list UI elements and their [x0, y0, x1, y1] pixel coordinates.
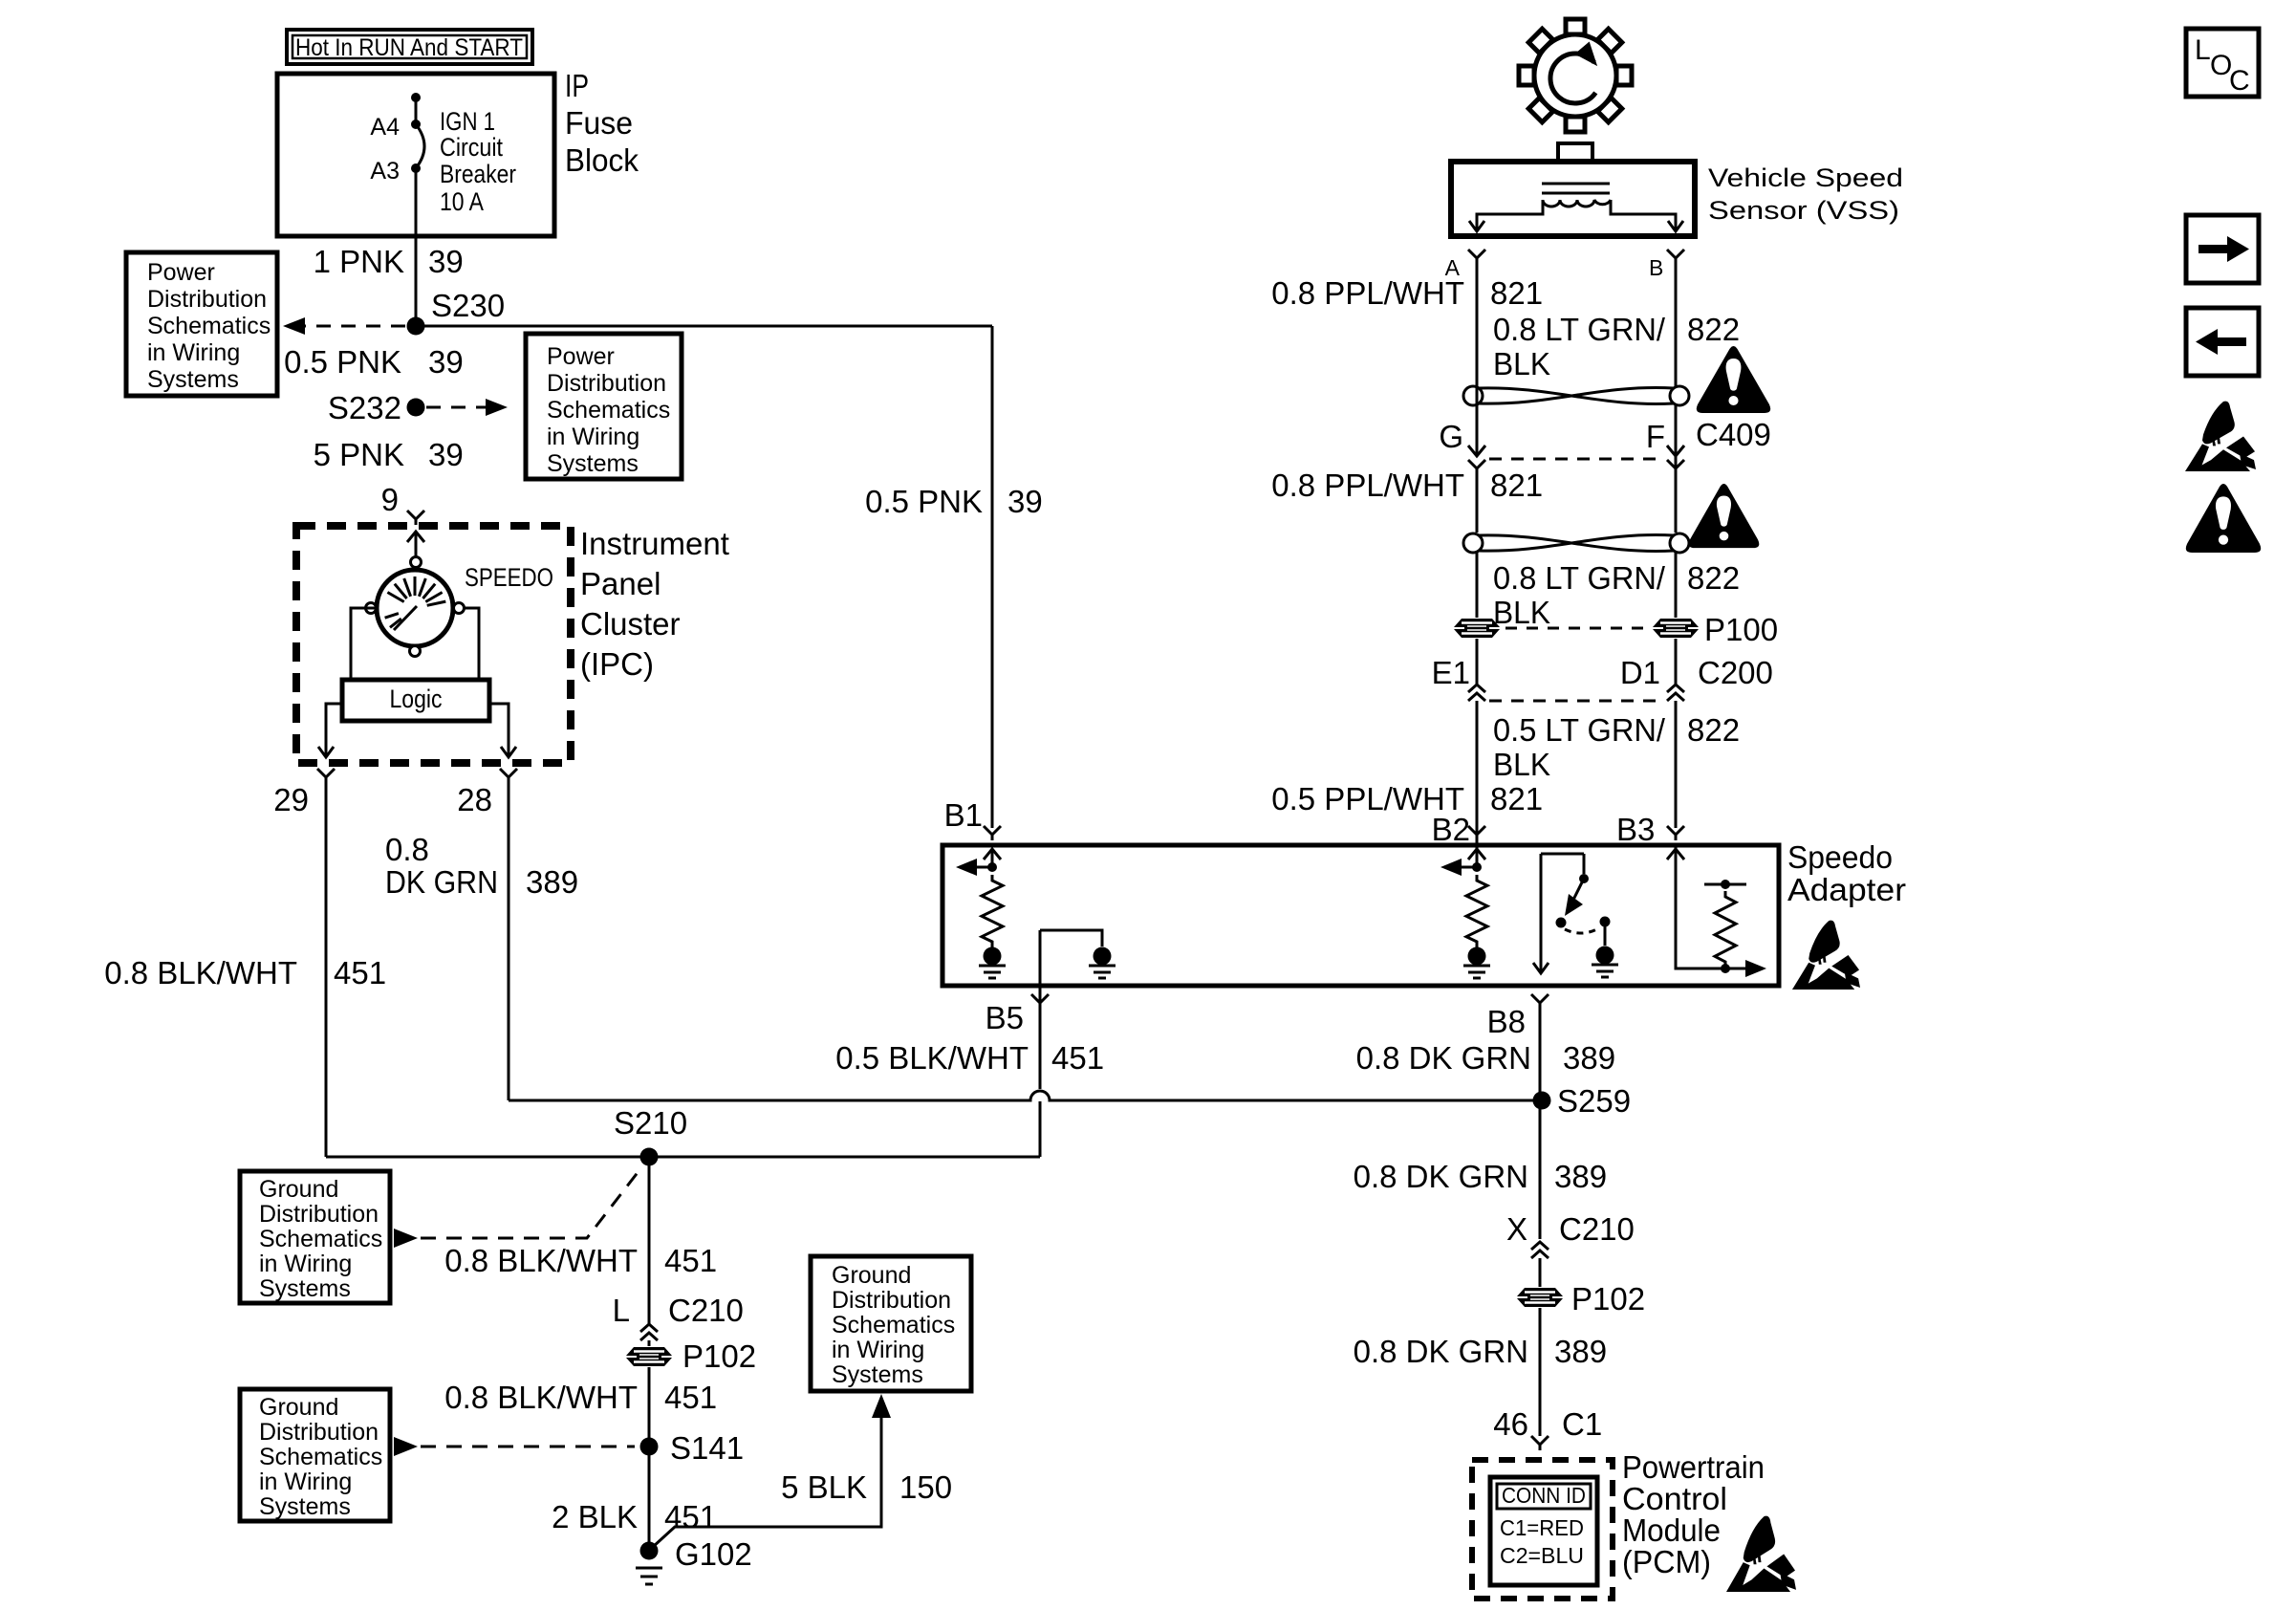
svg-text:L: L [613, 1293, 630, 1328]
svg-text:B1: B1 [944, 797, 983, 833]
svg-text:0.5 BLK/WHT: 0.5 BLK/WHT [835, 1040, 1029, 1076]
svg-text:Ground: Ground [259, 1176, 338, 1203]
svg-text:Systems: Systems [259, 1275, 351, 1302]
svg-text:Breaker: Breaker [440, 160, 516, 188]
svg-text:P102: P102 [1571, 1281, 1645, 1316]
svg-text:1 PNK: 1 PNK [314, 244, 404, 279]
svg-text:0.8 DK GRN: 0.8 DK GRN [1354, 1159, 1528, 1194]
svg-text:B2: B2 [1432, 812, 1470, 847]
svg-text:BLK: BLK [1493, 747, 1550, 782]
svg-text:B3: B3 [1616, 812, 1655, 847]
svg-text:C2=BLU: C2=BLU [1500, 1543, 1584, 1568]
svg-text:39: 39 [428, 437, 464, 472]
svg-text:Panel: Panel [580, 566, 661, 601]
svg-text:G102: G102 [675, 1536, 752, 1572]
svg-text:Distribution: Distribution [547, 370, 666, 397]
svg-text:Ground: Ground [259, 1394, 338, 1421]
svg-text:in Wiring: in Wiring [259, 1469, 352, 1495]
svg-text:Systems: Systems [259, 1493, 351, 1520]
svg-text:C210: C210 [668, 1293, 744, 1328]
svg-text:SPEEDO: SPEEDO [465, 563, 553, 592]
svg-text:B: B [1649, 255, 1663, 280]
svg-text:CONN ID: CONN ID [1502, 1483, 1586, 1508]
svg-text:0.8 LT GRN/: 0.8 LT GRN/ [1493, 312, 1666, 347]
svg-text:0.8 DK GRN: 0.8 DK GRN [1356, 1040, 1531, 1076]
svg-text:451: 451 [664, 1380, 717, 1415]
svg-text:Systems: Systems [147, 366, 239, 393]
svg-text:Sensor (VSS): Sensor (VSS) [1708, 196, 1899, 225]
svg-text:Module: Module [1622, 1512, 1721, 1548]
svg-text:Power: Power [147, 259, 215, 286]
svg-text:46: 46 [1493, 1406, 1528, 1442]
svg-text:Systems: Systems [832, 1361, 923, 1388]
svg-text:389: 389 [1554, 1159, 1607, 1194]
svg-text:822: 822 [1687, 312, 1740, 347]
svg-text:9: 9 [381, 482, 399, 517]
svg-text:Systems: Systems [547, 450, 639, 477]
svg-text:Adapter: Adapter [1787, 872, 1906, 907]
svg-text:in Wiring: in Wiring [259, 1251, 352, 1277]
svg-text:Instrument: Instrument [580, 526, 729, 561]
svg-text:G: G [1439, 419, 1463, 454]
svg-text:F: F [1646, 419, 1665, 454]
svg-text:451: 451 [664, 1243, 717, 1278]
svg-text:E1: E1 [1432, 655, 1470, 690]
svg-text:IP: IP [565, 68, 589, 103]
svg-text:0.8 BLK/WHT: 0.8 BLK/WHT [444, 1243, 638, 1278]
svg-text:D1: D1 [1620, 655, 1660, 690]
svg-text:28: 28 [457, 782, 492, 817]
svg-text:S210: S210 [614, 1105, 687, 1141]
svg-text:P100: P100 [1704, 612, 1778, 647]
svg-text:in Wiring: in Wiring [547, 424, 639, 450]
svg-text:822: 822 [1687, 560, 1740, 596]
svg-text:0.8 BLK/WHT: 0.8 BLK/WHT [104, 955, 297, 990]
svg-text:A3: A3 [370, 158, 400, 185]
svg-text:S230: S230 [431, 288, 505, 323]
svg-text:0.8: 0.8 [385, 832, 429, 867]
svg-text:Control: Control [1622, 1481, 1727, 1516]
svg-text:Hot In RUN And START: Hot In RUN And START [295, 34, 523, 61]
svg-text:S259: S259 [1557, 1083, 1631, 1119]
svg-text:BLK: BLK [1493, 595, 1550, 630]
svg-text:Block: Block [565, 142, 639, 178]
svg-text:Speedo: Speedo [1787, 839, 1893, 875]
svg-text:821: 821 [1490, 781, 1543, 816]
svg-text:150: 150 [899, 1469, 952, 1505]
svg-text:822: 822 [1687, 712, 1740, 748]
svg-text:0.8 DK GRN: 0.8 DK GRN [1354, 1334, 1528, 1369]
svg-text:S141: S141 [670, 1430, 744, 1466]
svg-text:451: 451 [334, 955, 386, 990]
svg-text:821: 821 [1490, 275, 1543, 311]
svg-text:C1: C1 [1562, 1406, 1602, 1442]
svg-text:L: L [2195, 34, 2211, 66]
svg-text:Circuit: Circuit [440, 133, 503, 162]
svg-text:0.8 PPL/WHT: 0.8 PPL/WHT [1271, 468, 1464, 503]
svg-text:Distribution: Distribution [832, 1287, 951, 1314]
svg-text:Fuse: Fuse [565, 105, 633, 141]
svg-text:389: 389 [526, 864, 578, 900]
svg-text:C210: C210 [1559, 1211, 1635, 1247]
svg-text:0.8 LT GRN/: 0.8 LT GRN/ [1493, 560, 1666, 596]
svg-text:X: X [1506, 1211, 1527, 1247]
svg-text:Schematics: Schematics [259, 1444, 382, 1470]
svg-text:Schematics: Schematics [259, 1226, 382, 1252]
svg-text:Cluster: Cluster [580, 606, 681, 642]
svg-text:451: 451 [1051, 1040, 1104, 1076]
svg-text:C1=RED: C1=RED [1500, 1515, 1584, 1540]
svg-text:0.5 PNK: 0.5 PNK [284, 344, 401, 380]
svg-text:Schematics: Schematics [547, 397, 670, 424]
svg-text:10 A: 10 A [440, 187, 484, 216]
svg-text:C200: C200 [1698, 655, 1773, 690]
svg-text:Powertrain: Powertrain [1622, 1449, 1765, 1485]
svg-text:0.5 PNK: 0.5 PNK [865, 484, 983, 519]
svg-text:Power: Power [547, 343, 615, 370]
svg-text:389: 389 [1563, 1040, 1615, 1076]
svg-text:5 PNK: 5 PNK [314, 437, 404, 472]
svg-text:Ground: Ground [832, 1262, 911, 1289]
svg-text:Logic: Logic [390, 685, 443, 713]
svg-text:29: 29 [273, 782, 309, 817]
svg-text:Distribution: Distribution [147, 286, 267, 313]
svg-text:Vehicle Speed: Vehicle Speed [1708, 163, 1903, 192]
svg-text:S232: S232 [328, 390, 401, 425]
svg-text:0.5 LT GRN/: 0.5 LT GRN/ [1493, 712, 1666, 748]
svg-text:821: 821 [1490, 468, 1543, 503]
svg-text:389: 389 [1554, 1334, 1607, 1369]
svg-text:BLK: BLK [1493, 346, 1550, 381]
svg-text:in Wiring: in Wiring [832, 1337, 924, 1363]
svg-text:IGN 1: IGN 1 [440, 107, 495, 136]
svg-text:39: 39 [428, 244, 464, 279]
svg-text:39: 39 [428, 344, 464, 380]
svg-text:(IPC): (IPC) [580, 646, 654, 682]
svg-text:(PCM): (PCM) [1622, 1544, 1711, 1579]
svg-text:5 BLK: 5 BLK [781, 1469, 867, 1505]
svg-text:Distribution: Distribution [259, 1201, 379, 1228]
svg-text:A4: A4 [370, 114, 400, 141]
svg-text:C409: C409 [1696, 417, 1771, 452]
svg-text:B8: B8 [1487, 1004, 1526, 1039]
svg-text:0.8 PPL/WHT: 0.8 PPL/WHT [1271, 275, 1464, 311]
svg-text:0.8 BLK/WHT: 0.8 BLK/WHT [444, 1380, 638, 1415]
svg-text:39: 39 [1007, 484, 1043, 519]
svg-text:B5: B5 [986, 1000, 1024, 1035]
svg-text:Distribution: Distribution [259, 1419, 379, 1446]
svg-text:2 BLK: 2 BLK [552, 1499, 638, 1534]
svg-text:Schematics: Schematics [147, 313, 271, 339]
svg-text:P102: P102 [682, 1338, 756, 1374]
svg-text:DK GRN: DK GRN [385, 864, 498, 900]
svg-text:Schematics: Schematics [832, 1312, 955, 1338]
svg-text:C: C [2229, 65, 2250, 97]
svg-text:in Wiring: in Wiring [147, 339, 240, 366]
